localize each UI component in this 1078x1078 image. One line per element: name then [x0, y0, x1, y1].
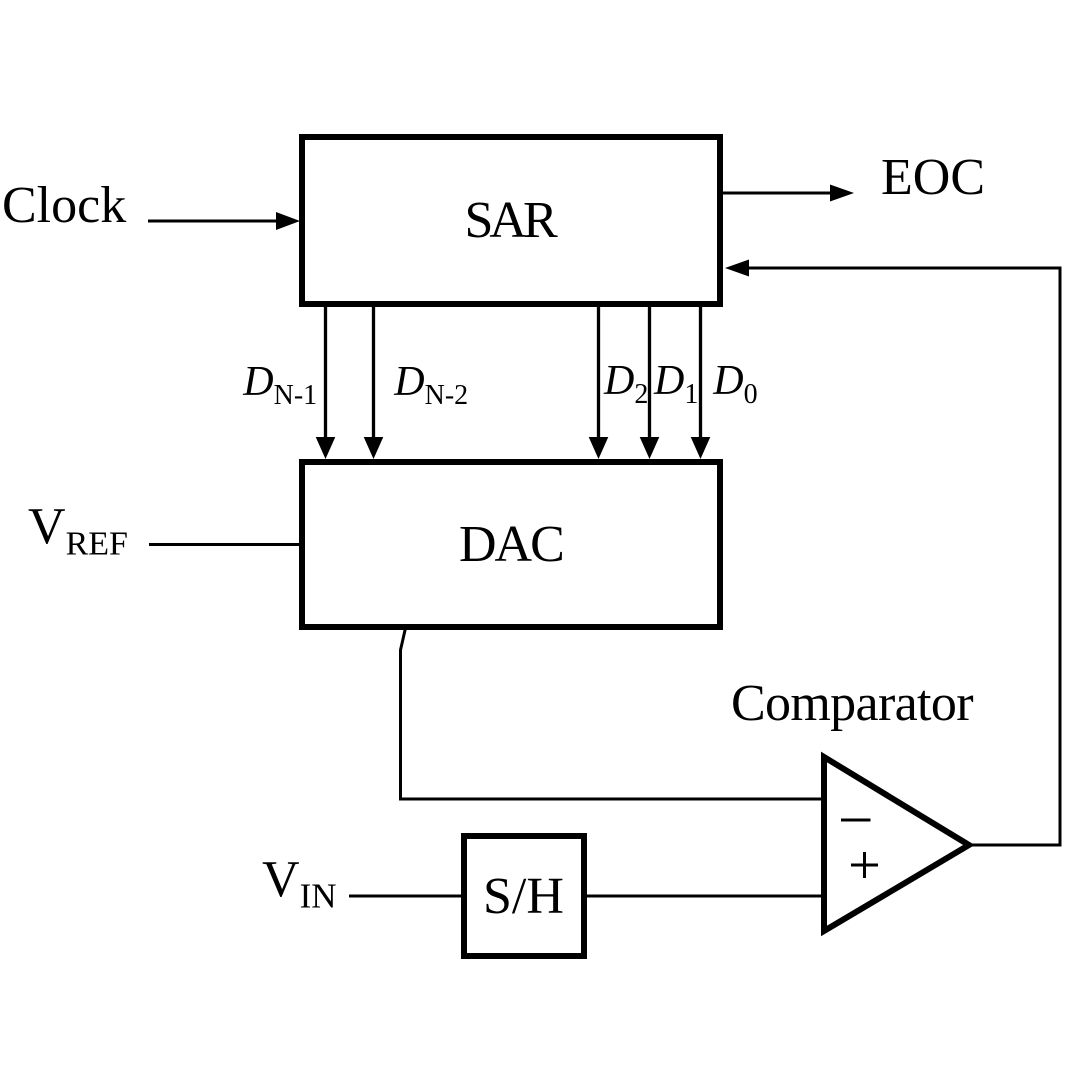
svg-text:EOC: EOC — [881, 149, 985, 206]
svg-text:Clock: Clock — [2, 177, 126, 234]
wire bit D1 arrow — [648, 307, 651, 438]
wire Clock input arrow — [148, 220, 280, 223]
comparator plus sign — [851, 864, 878, 867]
comparator U3 triangle — [824, 757, 969, 931]
S/H block U4 — [464, 836, 584, 956]
wire VREF to DAC — [149, 543, 299, 546]
svg-text:DAC: DAC — [459, 516, 563, 573]
wire bit D_N-2 arrow — [372, 307, 375, 438]
wire VIN to S/H — [349, 895, 461, 898]
DAC block U2 — [302, 462, 720, 627]
wire EOC output arrow — [723, 192, 834, 195]
wire bit D0 arrow — [699, 307, 702, 438]
comparator minus sign — [841, 819, 871, 822]
SAR block U1 — [302, 137, 720, 304]
wire DAC output to comparator inverting input — [401, 628, 827, 799]
wire bit D_N-1 arrow — [324, 307, 327, 438]
wire comparator output — [969, 844, 1060, 847]
wire S/H to comparator non-inverting input — [587, 895, 826, 898]
svg-text:S/H: S/H — [483, 868, 564, 925]
svg-text:Comparator: Comparator — [731, 675, 973, 732]
wire comparator feedback to SAR — [748, 268, 1060, 845]
wire bit D2 arrow — [597, 307, 600, 438]
svg-text:SAR: SAR — [465, 192, 558, 249]
